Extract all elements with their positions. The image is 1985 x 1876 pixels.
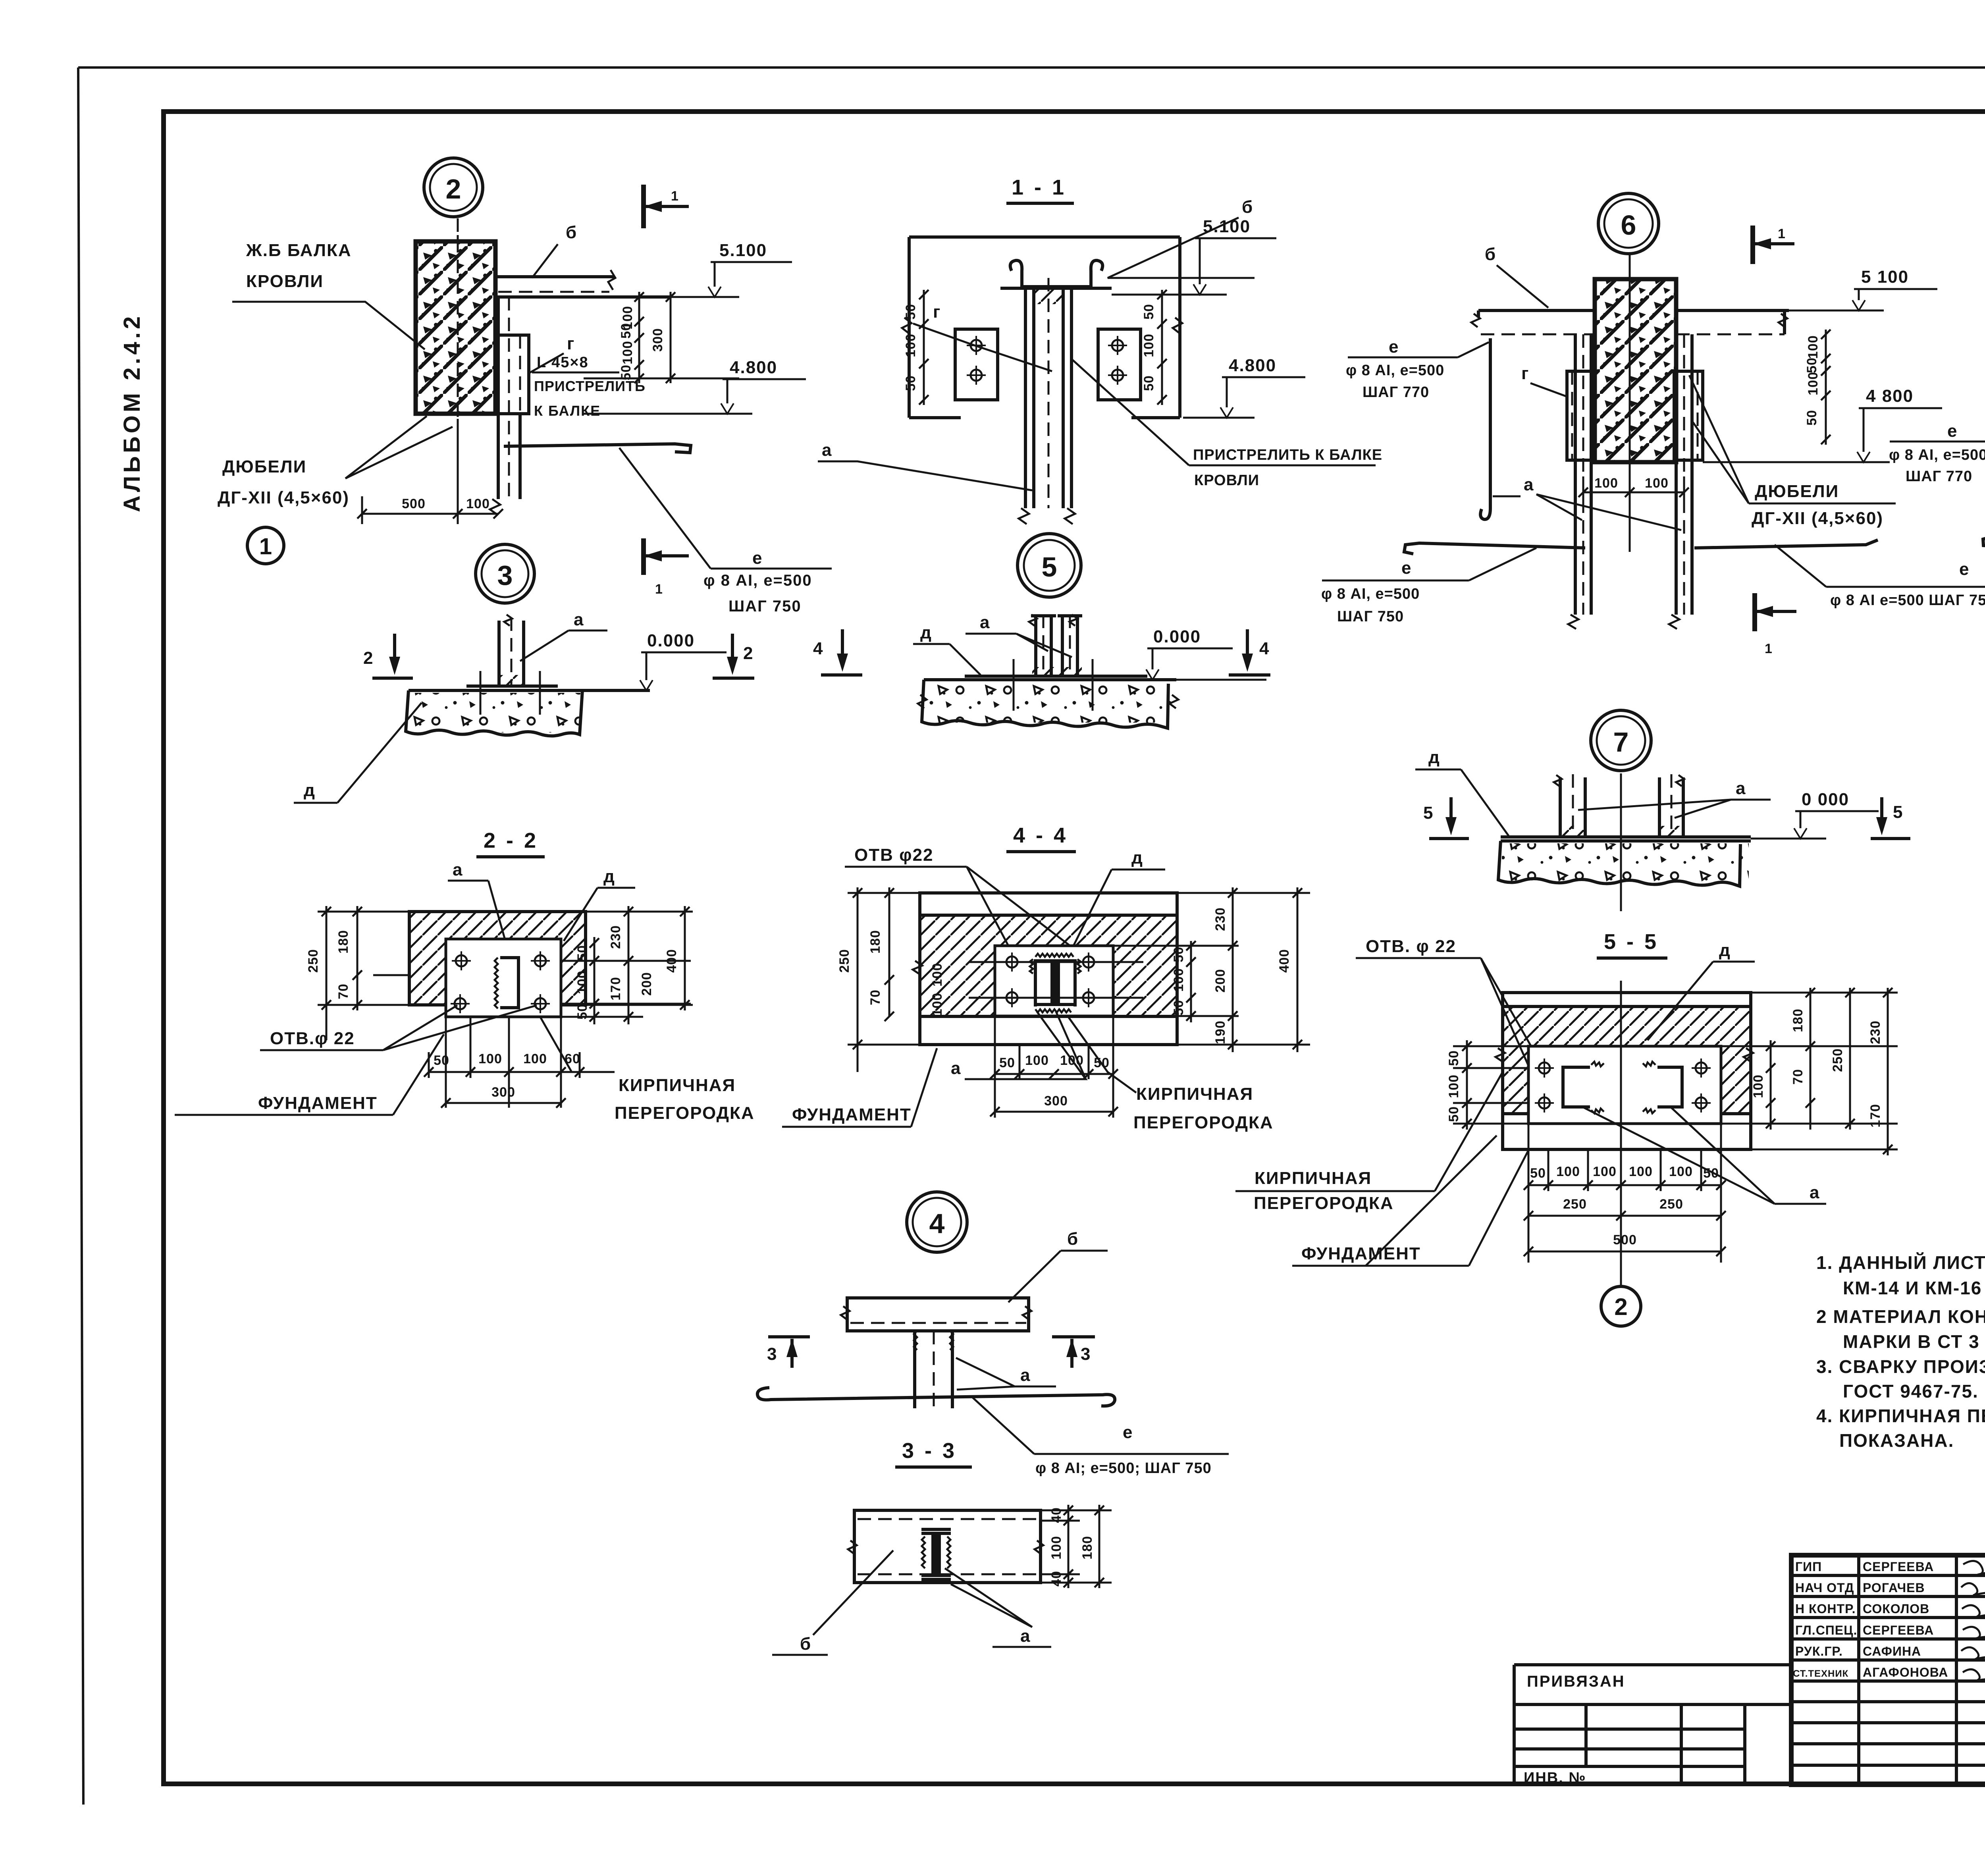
brick wall band plan section 4-4 xyxy=(913,893,1177,1045)
svg-text:2: 2 xyxy=(446,174,461,204)
svg-text:100: 100 xyxy=(575,970,590,994)
svg-text:1: 1 xyxy=(1765,641,1773,656)
svg-text:е: е xyxy=(1959,559,1970,579)
section cut mark 1 (top) node 2 xyxy=(644,185,689,228)
label zh.b balka krovli xyxy=(232,241,425,349)
svg-text:е: е xyxy=(1401,558,1412,578)
svg-text:4.800: 4.800 xyxy=(1229,356,1276,375)
svg-text:100: 100 xyxy=(903,334,918,357)
svg-text:ШАГ 770: ШАГ 770 xyxy=(1363,384,1429,401)
svg-text:а: а xyxy=(1020,1626,1031,1646)
svg-text:300: 300 xyxy=(650,328,665,352)
svg-text:50: 50 xyxy=(1530,1166,1546,1181)
twin channel columns node 5 xyxy=(1029,615,1082,677)
svg-text:6: 6 xyxy=(1621,210,1636,241)
label L45x8 pristrelit k balke xyxy=(532,354,646,419)
label g bracket node 6 xyxy=(1521,364,1568,397)
rebar label node 2 xyxy=(619,448,832,615)
svg-text:2: 2 xyxy=(743,644,754,663)
label g (angle) node 2 xyxy=(529,334,575,373)
elevation 0.000 node 5 xyxy=(1146,627,1266,680)
angle bracket L45x8 node 2 xyxy=(495,335,529,414)
svg-text:40: 40 xyxy=(1049,1507,1064,1523)
label b node 4 xyxy=(1008,1229,1108,1302)
svg-text:ГИП: ГИП xyxy=(1795,1560,1822,1574)
svg-text:100: 100 xyxy=(1025,1053,1049,1068)
svg-text:230: 230 xyxy=(608,925,623,949)
section title 2-2 xyxy=(476,829,545,857)
svg-text:а: а xyxy=(951,1059,961,1078)
detail marker circle 2 xyxy=(424,158,483,217)
svg-text:230: 230 xyxy=(1213,907,1228,931)
left stud column node 6 xyxy=(1568,334,1591,629)
svg-text:е: е xyxy=(752,548,763,568)
svg-text:50: 50 xyxy=(1804,410,1819,426)
svg-text:д: д xyxy=(1428,748,1440,767)
svg-text:1: 1 xyxy=(1778,226,1786,241)
svg-text:φ 8 АI, е=500: φ 8 АI, е=500 xyxy=(703,572,812,589)
svg-text:100: 100 xyxy=(1049,1536,1064,1560)
label d section 5-5 xyxy=(1648,941,1755,1040)
bolt plate right section 1-1 xyxy=(1098,329,1141,400)
rail beam node 4 xyxy=(841,1298,1031,1331)
label g plates section 1-1 xyxy=(913,302,1052,371)
svg-text:50: 50 xyxy=(903,304,918,320)
left bracket plate node 6 xyxy=(1567,371,1595,460)
label a studs node 6 xyxy=(1493,475,1681,530)
svg-text:100: 100 xyxy=(1645,476,1669,491)
svg-text:г: г xyxy=(933,302,941,322)
svg-text:100: 100 xyxy=(1806,372,1821,395)
foundation node 7 xyxy=(1498,841,1751,886)
brick wall band plan section 2-2 xyxy=(409,912,586,1005)
dim 500/100 node 2 xyxy=(357,419,503,524)
rebar label node 4 xyxy=(973,1398,1229,1477)
svg-text:100: 100 xyxy=(1141,334,1156,357)
svg-text:ШАГ 750: ШАГ 750 xyxy=(728,598,802,615)
svg-text:180: 180 xyxy=(336,930,351,954)
svg-text:L 45×8: L 45×8 xyxy=(537,354,589,371)
partition rail left node 6 xyxy=(1471,310,1595,334)
svg-text:ГОСТ 9467-75. ВЫСОТА ШВА h=6: ГОСТ 9467-75. ВЫСОТА ШВА h=6мм. xyxy=(1843,1381,1985,1402)
right dim chain node 6 xyxy=(1804,330,1831,445)
svg-text:100: 100 xyxy=(1629,1164,1653,1179)
section title 3-3 xyxy=(895,1439,972,1467)
bolts section 5-5 xyxy=(1535,1059,1711,1112)
svg-text:ДГ-XII (4,5×60): ДГ-XII (4,5×60) xyxy=(1752,509,1883,528)
svg-text:1: 1 xyxy=(671,189,679,204)
svg-text:ДЮБЕЛИ: ДЮБЕЛИ xyxy=(222,457,306,476)
detail marker circle 3 xyxy=(476,544,534,603)
svg-text:3: 3 xyxy=(1081,1344,1091,1364)
rebar label bottom-right node 6 xyxy=(1775,545,1985,609)
detail marker circle 1 xyxy=(247,527,284,564)
partition wall outline section 1-1 xyxy=(902,237,1182,418)
elevation 4.800 section 1-1 xyxy=(1183,356,1305,418)
right bracket plate node 6 xyxy=(1674,371,1703,460)
label a node 5 xyxy=(966,613,1072,657)
elevation 5 100 node 6 xyxy=(1789,267,1937,310)
svg-text:50: 50 xyxy=(1141,375,1156,391)
rebar label right node 6 xyxy=(1889,421,1985,485)
elevation 0 000 node 7 xyxy=(1751,790,1879,839)
svg-text:50: 50 xyxy=(1804,357,1819,373)
svg-text:КИРПИЧНАЯ: КИРПИЧНАЯ xyxy=(1255,1168,1372,1188)
svg-text:ПРИВЯЗАН: ПРИВЯЗАН xyxy=(1527,1673,1625,1690)
I-beam section plan 4-4 xyxy=(1030,954,1081,1012)
label a column section 1-1 xyxy=(818,440,1032,490)
svg-text:0.000: 0.000 xyxy=(647,631,695,650)
svg-text:а: а xyxy=(1810,1183,1820,1202)
svg-text:250: 250 xyxy=(837,949,852,973)
bottom rebar tie node 2 xyxy=(504,444,691,453)
bottom rebar right node 6 xyxy=(1694,540,1878,548)
svg-text:50: 50 xyxy=(1446,1050,1461,1066)
base plate node 7 xyxy=(1501,835,1751,839)
detail marker circle 2 below 5-5 xyxy=(1601,1286,1641,1326)
svg-text:4: 4 xyxy=(1259,639,1270,658)
svg-text:φ 8 АI е=500 ШАГ 750: φ 8 АI е=500 ШАГ 750 xyxy=(1830,592,1985,609)
svg-text:КИРПИЧНАЯ: КИРПИЧНАЯ xyxy=(1136,1084,1253,1104)
right dim chain 50/100/50 section 1-1 xyxy=(1141,290,1167,405)
svg-text:5: 5 xyxy=(1423,803,1434,823)
svg-text:50: 50 xyxy=(1141,304,1156,320)
svg-text:г: г xyxy=(1521,364,1529,383)
svg-text:а: а xyxy=(822,440,832,460)
label a node 3 xyxy=(520,610,607,661)
weld at base node 5 xyxy=(1032,667,1082,676)
base plate node 5 xyxy=(965,675,1147,678)
svg-text:100: 100 xyxy=(1593,1164,1617,1179)
svg-text:5.100: 5.100 xyxy=(1203,217,1251,236)
svg-text:φ 8 АI, е=500: φ 8 АI, е=500 xyxy=(1889,447,1985,463)
svg-text:100: 100 xyxy=(466,496,490,511)
svg-text:1. ДАННЫЙ ЛИСТ ЧИТАТЬ СОВМЕСТ: 1. ДАННЫЙ ЛИСТ ЧИТАТЬ СОВМЕСТНО С ЛИСТАМ… xyxy=(1816,1252,1985,1273)
section cut 3 right node 4 xyxy=(1052,1337,1095,1368)
detail marker circle 5 xyxy=(1018,534,1081,597)
svg-text:б: б xyxy=(800,1634,811,1654)
svg-text:100: 100 xyxy=(1751,1074,1766,1098)
anchor bolts node 5 xyxy=(1014,659,1093,711)
svg-text:СТ.ТЕХНИК: СТ.ТЕХНИК xyxy=(1793,1668,1848,1679)
svg-text:φ 8 АI, е=500: φ 8 АI, е=500 xyxy=(1346,362,1444,379)
partition rail right node 6 xyxy=(1676,310,1789,334)
svg-text:а: а xyxy=(574,610,584,629)
svg-text:РОГАЧЕВ: РОГАЧЕВ xyxy=(1863,1581,1925,1595)
svg-text:300: 300 xyxy=(491,1085,515,1100)
dim 300 node 2 xyxy=(584,292,739,383)
svg-text:1: 1 xyxy=(259,534,272,559)
personnel table grid xyxy=(1791,1555,1985,1785)
label fundament section 4-4 xyxy=(782,1048,937,1127)
svg-text:φ 8 АI, е=500: φ 8 АI, е=500 xyxy=(1321,586,1420,602)
centerline bolts section 4-4 xyxy=(969,962,1143,998)
svg-text:б: б xyxy=(1485,245,1496,264)
rc roof beam (hatched) node 6 xyxy=(1595,254,1676,552)
label a section 2-2 xyxy=(448,860,512,965)
label a node 4 xyxy=(956,1358,1056,1390)
label kirpichnaya peregorodka section 2-2 xyxy=(540,1016,755,1123)
anchor bolts node 3 xyxy=(480,671,540,715)
left dim chain 50/100/50 section 1-1 xyxy=(903,290,929,405)
label otv f22 section 2-2 xyxy=(260,1005,537,1050)
svg-text:СЕРГЕЕВА: СЕРГЕЕВА xyxy=(1863,1623,1934,1637)
svg-text:100: 100 xyxy=(620,341,635,364)
svg-text:100: 100 xyxy=(930,993,945,1016)
svg-text:70: 70 xyxy=(868,989,883,1005)
detail marker circle 6 xyxy=(1598,193,1659,254)
centerline node 7 xyxy=(1620,773,1622,911)
svg-text:100: 100 xyxy=(1446,1074,1461,1098)
svg-text:а: а xyxy=(453,860,463,879)
section cut mark 1 (top) node 6 xyxy=(1753,226,1794,264)
svg-text:50: 50 xyxy=(1446,1106,1461,1122)
svg-text:400: 400 xyxy=(664,949,679,973)
svg-text:4 - 4: 4 - 4 xyxy=(1013,823,1068,847)
svg-text:ОТВ.φ 22: ОТВ.φ 22 xyxy=(270,1029,355,1048)
svg-text:2 - 2: 2 - 2 xyxy=(484,829,538,852)
label otv f22 section 4-4 xyxy=(845,845,1090,961)
stud columns node 7 xyxy=(1554,774,1684,837)
bottom dim chain section 4-4 xyxy=(990,1016,1118,1118)
svg-text:70: 70 xyxy=(336,983,351,999)
svg-text:2 МАТЕРИАЛ КОНСТРУКЦИЙ – СТАЛЬ: 2 МАТЕРИАЛ КОНСТРУКЦИЙ – СТАЛЬ УГЛЕРОДИС… xyxy=(1816,1306,1985,1327)
svg-text:КИРПИЧНАЯ: КИРПИЧНАЯ xyxy=(619,1076,736,1095)
channel section in plan 2-2 xyxy=(495,958,518,1008)
svg-text:50: 50 xyxy=(999,1055,1015,1070)
elevation 0.000 node 3 xyxy=(640,631,727,690)
svg-text:САФИНА: САФИНА xyxy=(1863,1644,1921,1658)
right dim chains section 4-4 xyxy=(1113,887,1310,1052)
svg-text:0.000: 0.000 xyxy=(1153,627,1201,646)
svg-text:200: 200 xyxy=(639,972,654,996)
svg-text:50: 50 xyxy=(575,1004,590,1020)
detail marker circle 4 xyxy=(907,1192,967,1252)
section cut 5 right node 7 xyxy=(1871,797,1910,839)
svg-text:4. КИРПИЧНАЯ ПЕРЕГОРОДКА В УЗЛ: 4. КИРПИЧНАЯ ПЕРЕГОРОДКА В УЗЛАХ УСЛОВНО… xyxy=(1816,1406,1985,1426)
label kirpichnaya peregorodka section 5-5 xyxy=(1235,1072,1503,1213)
svg-text:190: 190 xyxy=(1213,1020,1228,1044)
svg-text:170: 170 xyxy=(1868,1104,1883,1128)
label b section 3-3 xyxy=(772,1550,893,1655)
vertical dim chain 100/50/100/50 node 2 xyxy=(619,292,644,383)
svg-text:400: 400 xyxy=(1277,949,1292,973)
label a node 7 xyxy=(1578,779,1771,818)
svg-text:50: 50 xyxy=(903,375,918,391)
elevation 5.100 node 2 xyxy=(584,241,792,297)
svg-text:КРОВЛИ: КРОВЛИ xyxy=(246,272,324,291)
foundation node 3 xyxy=(406,690,650,736)
svg-text:б: б xyxy=(1242,197,1253,217)
rail section rect 3-3 xyxy=(848,1510,1043,1583)
svg-text:180: 180 xyxy=(1790,1008,1806,1032)
svg-text:РУК.ГР.: РУК.ГР. xyxy=(1795,1644,1843,1658)
rebar label left node 6 xyxy=(1346,337,1489,401)
partition stud column node 2 xyxy=(490,297,520,515)
svg-text:ДГ-XII (4,5×60): ДГ-XII (4,5×60) xyxy=(218,488,349,507)
label kirpichnaya peregorodka section 4-4 xyxy=(1068,1016,1274,1132)
svg-text:АЛЬБОМ 2.4.2: АЛЬБОМ 2.4.2 xyxy=(119,313,145,512)
section cut 4 right node 5 xyxy=(1229,629,1270,675)
label d node 5 xyxy=(913,623,981,675)
section title 5-5 xyxy=(1597,930,1667,958)
svg-text:Ж.Б БАЛКА: Ж.Б БАЛКА xyxy=(246,241,352,260)
label d section 2-2 xyxy=(564,867,635,941)
label b node 6 xyxy=(1485,245,1548,308)
svg-text:г: г xyxy=(567,334,575,353)
centerlines section 2-2 xyxy=(373,975,509,1108)
svg-text:а: а xyxy=(980,613,990,632)
brick wall band plan section 5-5 xyxy=(1495,993,1753,1149)
svg-text:250: 250 xyxy=(1830,1048,1845,1072)
label a section 5-5 xyxy=(1584,1108,1826,1204)
elevation 4.800 node 2 xyxy=(584,358,806,414)
label pristrelit k balke krovli xyxy=(1072,359,1382,489)
dowels label node 6 xyxy=(1689,375,1896,528)
left dim chain section 5-5 xyxy=(1446,1040,1528,1130)
svg-text:а: а xyxy=(1736,779,1746,798)
privyazan sub-table xyxy=(1514,1665,1791,1786)
section cut mark 1 (bottom) node 6 xyxy=(1755,593,1796,656)
bottom dim chains section 5-5 xyxy=(1524,1124,1726,1263)
svg-text:1: 1 xyxy=(655,582,663,597)
section cut 5 left node 7 xyxy=(1423,797,1469,839)
svg-text:70: 70 xyxy=(1790,1069,1806,1085)
svg-text:50: 50 xyxy=(1171,1000,1186,1016)
svg-text:φ 8 АI; е=500; ШАГ 750: φ 8 АI; е=500; ШАГ 750 xyxy=(1035,1460,1212,1477)
svg-text:500: 500 xyxy=(1613,1232,1637,1247)
svg-text:КРОВЛИ: КРОВЛИ xyxy=(1194,472,1259,489)
label d node 7 xyxy=(1415,748,1509,836)
svg-text:Н КОНТР.: Н КОНТР. xyxy=(1795,1602,1856,1616)
svg-text:ФУНДАМЕНТ: ФУНДАМЕНТ xyxy=(792,1105,912,1124)
svg-text:50: 50 xyxy=(434,1053,449,1068)
label b node 2 xyxy=(532,223,577,278)
svg-text:д: д xyxy=(920,623,932,642)
section title 1-1 xyxy=(1006,175,1074,203)
svg-text:180: 180 xyxy=(1080,1536,1095,1560)
label fundament section 2-2 xyxy=(175,1034,444,1115)
bolts section 4-4 xyxy=(1002,952,1098,1007)
section cut 2 right node 3 xyxy=(713,634,754,678)
svg-text:100: 100 xyxy=(1806,335,1821,359)
right stud column node 6 xyxy=(1669,334,1692,629)
svg-text:2: 2 xyxy=(363,648,374,668)
base plate node 3 xyxy=(466,684,558,688)
stud column node 4 xyxy=(914,1331,953,1408)
section cut mark 1 (bottom) node 2 xyxy=(644,538,689,597)
svg-text:4.800: 4.800 xyxy=(730,358,777,377)
svg-text:300: 300 xyxy=(1044,1093,1068,1109)
svg-text:ДЮБЕЛИ: ДЮБЕЛИ xyxy=(1755,482,1839,501)
svg-text:500: 500 xyxy=(402,496,426,511)
label b section 1-1 xyxy=(1108,197,1255,278)
svg-text:100: 100 xyxy=(1594,476,1618,491)
svg-text:К БАЛКЕ: К БАЛКЕ xyxy=(534,403,601,419)
I-beam section 3-3 xyxy=(921,1529,951,1579)
bolts section 2-2 xyxy=(451,951,550,1013)
label a section 4-4 xyxy=(951,1012,1086,1079)
svg-text:МАРКИ В СТ 3 КП-2-1 ПО ТУ 14: МАРКИ В СТ 3 КП-2-1 ПО ТУ 14-1-3023-80 xyxy=(1843,1331,1985,1352)
svg-text:ПРИСТРЕЛИТЬ К БАЛКЕ: ПРИСТРЕЛИТЬ К БАЛКЕ xyxy=(1193,447,1382,463)
svg-text:3 - 3: 3 - 3 xyxy=(902,1439,957,1463)
dim 100/100 node 6 xyxy=(1578,476,1689,502)
svg-text:2: 2 xyxy=(1614,1294,1627,1320)
dowels label node 2 xyxy=(218,416,453,507)
svg-text:0 000: 0 000 xyxy=(1802,790,1849,809)
svg-text:б: б xyxy=(1067,1229,1079,1249)
svg-text:а: а xyxy=(1524,475,1534,494)
svg-text:7: 7 xyxy=(1613,727,1629,758)
left dim chain 180/70=250 section 2-2 xyxy=(306,906,409,1040)
svg-text:ШАГ 750: ШАГ 750 xyxy=(1337,608,1404,625)
svg-text:д: д xyxy=(1719,941,1731,960)
anchor plate plan section 2-2 xyxy=(446,939,561,1017)
personnel names xyxy=(1793,1560,1948,1679)
svg-text:КМ-14 И КМ-16: КМ-14 И КМ-16 xyxy=(1843,1278,1982,1298)
label d section 4-4 xyxy=(1068,848,1165,957)
svg-text:1 - 1: 1 - 1 xyxy=(1012,175,1066,199)
svg-text:д: д xyxy=(603,867,615,886)
svg-text:ОТВ. φ 22: ОТВ. φ 22 xyxy=(1366,937,1456,956)
bottom rebar node 8 xyxy=(1983,537,1985,546)
svg-text:ПЕРЕГОРОДКА: ПЕРЕГОРОДКА xyxy=(1254,1193,1394,1213)
svg-text:250: 250 xyxy=(306,949,321,973)
bottom rebar left node 6 xyxy=(1404,543,1585,554)
svg-text:100: 100 xyxy=(1171,968,1186,992)
svg-text:ГЛ.СПЕЦ.: ГЛ.СПЕЦ. xyxy=(1795,1623,1857,1637)
signatures xyxy=(1961,1561,1985,1685)
detail marker circle 7 xyxy=(1591,710,1651,771)
svg-text:4: 4 xyxy=(929,1208,945,1239)
label otv f22 section 5-5 xyxy=(1356,937,1544,1100)
section cut 2 left node 3 xyxy=(363,634,413,678)
svg-text:АГАФОНОВА: АГАФОНОВА xyxy=(1863,1665,1948,1679)
right dim chains section 5-5 xyxy=(1721,988,1898,1155)
svg-text:100: 100 xyxy=(1556,1164,1580,1179)
svg-text:ПОКАЗАНА.: ПОКАЗАНА. xyxy=(1839,1430,1954,1451)
channel cap section 1-1 xyxy=(1000,260,1112,288)
svg-text:170: 170 xyxy=(608,977,623,1001)
svg-text:50: 50 xyxy=(1171,947,1186,962)
svg-text:100: 100 xyxy=(478,1051,502,1066)
svg-text:НАЧ ОТД: НАЧ ОТД xyxy=(1795,1581,1854,1595)
partition top rail node 2 xyxy=(495,270,671,297)
label fundament section 5-5 xyxy=(1292,1136,1528,1266)
svg-text:50: 50 xyxy=(619,323,634,339)
svg-text:5: 5 xyxy=(1893,802,1903,822)
bolt plate left section 1-1 xyxy=(955,329,998,400)
channel sections plan 5-5 xyxy=(1563,1062,1682,1113)
svg-text:ПЕРЕГОРОДКА: ПЕРЕГОРОДКА xyxy=(615,1103,755,1123)
svg-text:ФУНДАМЕНТ: ФУНДАМЕНТ xyxy=(258,1093,378,1113)
svg-text:5 100: 5 100 xyxy=(1861,267,1909,287)
svg-text:100: 100 xyxy=(930,963,945,987)
foundation node 5 xyxy=(918,680,1178,728)
svg-text:250: 250 xyxy=(1659,1197,1683,1212)
svg-text:а: а xyxy=(1020,1365,1031,1385)
svg-text:е: е xyxy=(1123,1423,1133,1442)
svg-text:4 800: 4 800 xyxy=(1866,386,1914,406)
section cut 3 left node 4 xyxy=(767,1337,810,1368)
svg-text:е: е xyxy=(1389,337,1399,357)
svg-text:3: 3 xyxy=(497,560,513,591)
centerline section 5-5 xyxy=(1620,981,1622,1286)
right dim chains section 2-2 xyxy=(561,906,693,1024)
section title 4-4 xyxy=(1006,823,1076,852)
label a section 3-3 xyxy=(945,1568,1051,1647)
svg-text:180: 180 xyxy=(868,930,883,954)
